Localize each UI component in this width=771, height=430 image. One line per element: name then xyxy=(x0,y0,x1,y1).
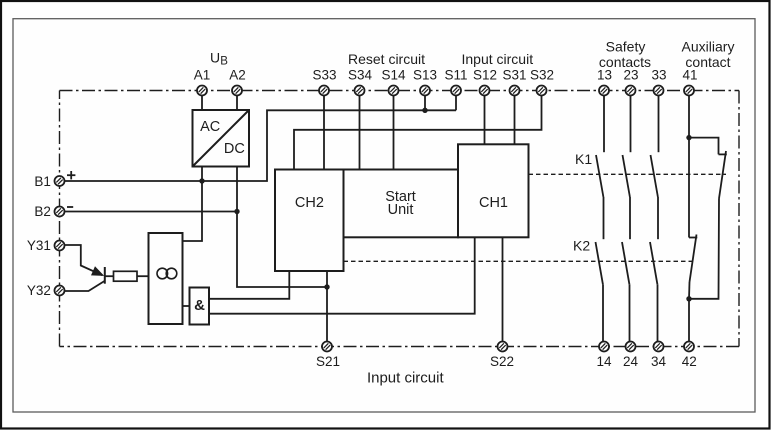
junction node aux A xyxy=(686,135,691,140)
terminal 23 xyxy=(626,86,636,96)
junction node S21 xyxy=(324,284,329,289)
svg-text:CH1: CH1 xyxy=(479,195,508,211)
terminal S22 xyxy=(498,342,508,352)
wire B2 down to S21 node xyxy=(237,212,327,288)
transistor Q1 arrowhead xyxy=(91,266,104,276)
terminal S11 xyxy=(451,86,461,96)
terminal 13 xyxy=(599,86,609,96)
svg-text:S22: S22 xyxy=(490,354,514,369)
svg-text:14: 14 xyxy=(596,354,612,369)
terminal A2 xyxy=(232,86,242,96)
svg-text:B: B xyxy=(220,56,228,68)
svg-text:Auxiliary: Auxiliary xyxy=(682,39,735,55)
wire S32 to CH2 xyxy=(294,96,542,170)
block CH2 xyxy=(275,170,344,272)
svg-text:S33: S33 xyxy=(312,68,336,83)
svg-text:S13: S13 xyxy=(413,68,437,83)
terminal 14 xyxy=(599,342,609,352)
wire S33 to CH2 xyxy=(323,96,325,170)
svg-text:S34: S34 xyxy=(348,68,373,83)
svg-text:B2: B2 xyxy=(34,204,51,219)
K2 NC contact bar xyxy=(689,237,697,239)
terminal S34 xyxy=(355,86,365,96)
svg-text:&: & xyxy=(194,297,205,314)
svg-text:Input circuit: Input circuit xyxy=(462,51,534,67)
aux right branch to K1 NC contact xyxy=(689,138,719,155)
device boundary dash-dot right xyxy=(738,91,740,347)
terminal B1 xyxy=(55,176,65,186)
block Start Unit xyxy=(344,170,459,238)
junction node S13/B1 xyxy=(422,108,427,113)
svg-text:U: U xyxy=(210,49,220,65)
svg-text:S21: S21 xyxy=(316,354,340,369)
transistor Q1 bar xyxy=(104,267,106,284)
wire Y32 to transistor xyxy=(65,281,105,291)
terminal S21 xyxy=(322,342,332,352)
AND gate U2 box xyxy=(190,288,210,325)
svg-text:AC: AC xyxy=(200,119,220,135)
wire A2 stub xyxy=(236,96,238,111)
terminal 34 xyxy=(654,342,664,352)
wire transformer to AND xyxy=(183,305,190,307)
svg-text:Input circuit: Input circuit xyxy=(367,370,445,387)
terminal S13 xyxy=(420,86,430,96)
contact column 23-24 xyxy=(622,96,631,342)
wire Y31 to transistor xyxy=(65,245,103,275)
wire A1 stub xyxy=(201,96,203,111)
terminal Y32 xyxy=(55,286,65,296)
terminal 33 xyxy=(654,86,664,96)
svg-text:Safety: Safety xyxy=(606,39,646,55)
device boundary dash-dot bottom xyxy=(60,346,740,348)
wire B2 rail xyxy=(65,211,238,213)
label plus xyxy=(67,174,75,176)
svg-text:S31: S31 xyxy=(502,68,526,83)
block CH1 xyxy=(458,144,529,237)
svg-text:K2: K2 xyxy=(573,238,590,254)
terminal S12 xyxy=(480,86,490,96)
terminal A1 xyxy=(197,86,207,96)
wire node B to 42 xyxy=(688,299,690,342)
svg-text:S11: S11 xyxy=(444,68,467,83)
svg-text:42: 42 xyxy=(682,354,697,369)
wire S31 to CH1 xyxy=(514,96,516,145)
junction node A1/B1 xyxy=(199,178,204,183)
wire resistor to transformer xyxy=(137,275,149,277)
power supply AC/DC U1 xyxy=(193,110,250,167)
svg-text:B1: B1 xyxy=(34,174,51,189)
wire A2 to B2 rail xyxy=(236,167,238,212)
terminal S32 xyxy=(537,86,547,96)
mechanical link K1 dashed xyxy=(529,173,727,175)
svg-text:33: 33 xyxy=(651,68,666,83)
contact column 13-14 xyxy=(596,96,605,342)
svg-text:41: 41 xyxy=(682,68,697,83)
wire S11 stub xyxy=(455,96,457,111)
svg-text:DC: DC xyxy=(224,141,245,157)
wire S14 to Start Unit xyxy=(393,96,395,170)
wire B1 node to transformer xyxy=(183,181,203,241)
label minus xyxy=(67,206,73,208)
junction node A2/B2 xyxy=(234,209,239,214)
terminal S14 xyxy=(389,86,399,96)
aux right branch down xyxy=(689,199,719,299)
svg-text:S14: S14 xyxy=(381,68,406,83)
svg-text:24: 24 xyxy=(623,354,639,369)
terminal 41 xyxy=(684,86,694,96)
svg-text:CH2: CH2 xyxy=(295,195,324,211)
wire AND to CH1 xyxy=(209,237,475,313)
aux left branch xyxy=(688,138,690,238)
auxiliary contact 41-42 xyxy=(689,96,727,342)
terminal S31 xyxy=(510,86,520,96)
transformer T1 circles xyxy=(157,268,168,279)
terminal 24 xyxy=(626,342,636,352)
wire S34 to Start Unit xyxy=(359,96,361,170)
svg-text:A1: A1 xyxy=(194,68,211,83)
wire AND output to CH2 xyxy=(209,271,289,299)
svg-text:K1: K1 xyxy=(575,151,592,167)
svg-text:34: 34 xyxy=(651,354,667,369)
wire CH1 to S22 xyxy=(502,237,504,341)
K2 NC contact blade xyxy=(690,235,697,283)
transformer T1 box xyxy=(149,233,183,324)
svg-text:Unit: Unit xyxy=(388,202,414,218)
terminal B2 xyxy=(55,207,65,217)
wire CH2 to S21 xyxy=(326,271,328,342)
svg-text:S32: S32 xyxy=(530,68,554,83)
resistor R1 xyxy=(114,271,138,281)
K1 NC contact blade xyxy=(719,151,726,199)
svg-text:Reset circuit: Reset circuit xyxy=(348,51,425,67)
device boundary dash-dot left xyxy=(59,91,61,347)
wire S13 stub xyxy=(424,96,426,111)
wire A1 to B1 rail xyxy=(201,167,203,182)
svg-text:S12: S12 xyxy=(473,68,497,83)
wire 41 to node A xyxy=(688,96,690,138)
svg-text:13: 13 xyxy=(597,68,612,83)
svg-text:Y31: Y31 xyxy=(27,238,51,253)
contact column 33-34 xyxy=(650,96,659,342)
svg-text:23: 23 xyxy=(623,68,638,83)
K1 NC contact bar xyxy=(719,153,727,155)
mechanical link K2 dashed xyxy=(344,260,696,262)
wire transistor base to resistor xyxy=(105,275,114,277)
terminal 42 xyxy=(684,342,694,352)
svg-text:A2: A2 xyxy=(229,68,246,83)
svg-text:Y32: Y32 xyxy=(27,283,51,298)
device boundary dash-dot top xyxy=(60,90,740,92)
wire B1 rail xyxy=(65,110,457,181)
junction node aux B xyxy=(686,296,691,301)
terminal S33 xyxy=(319,86,329,96)
terminal Y31 xyxy=(55,241,65,251)
wire S12 to CH1 xyxy=(484,96,486,145)
